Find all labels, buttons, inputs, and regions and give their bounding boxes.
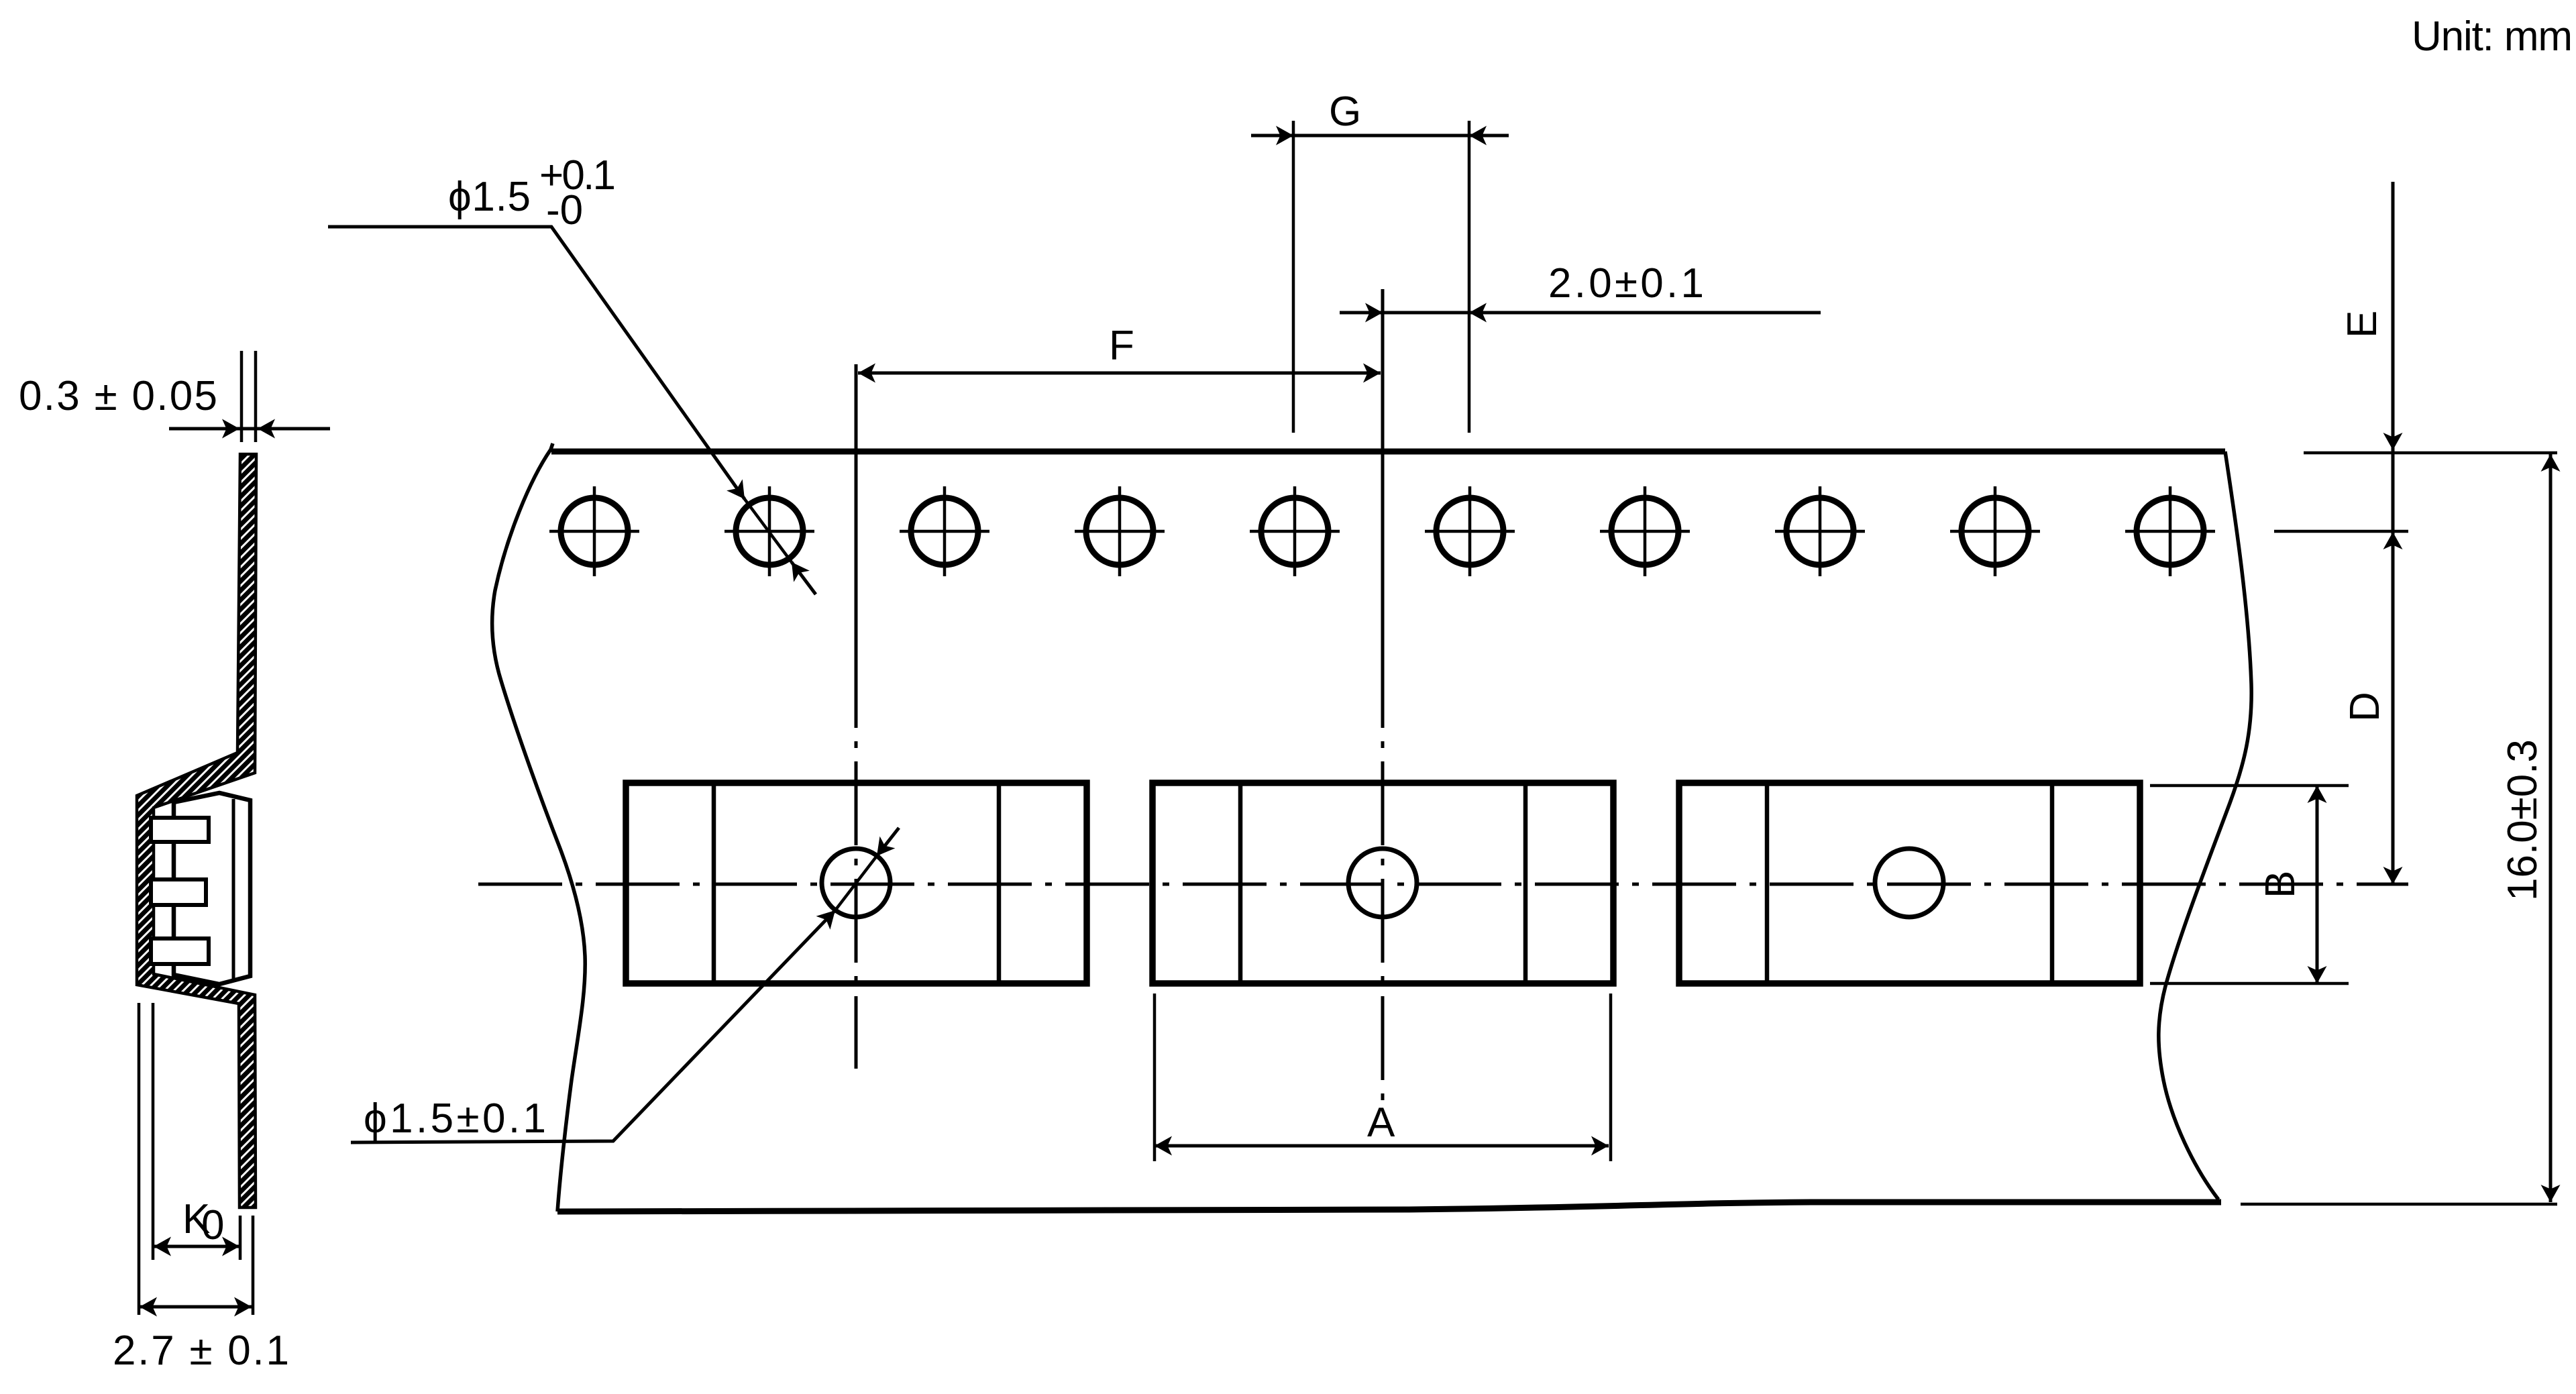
dimension A extension lines (1155, 994, 1611, 1161)
dimension A (1155, 1144, 1609, 1148)
sprocket hole 10 (2125, 486, 2215, 576)
sprocket hole 2 (724, 486, 814, 576)
dimension 0.3±0.05 extension lines (241, 351, 256, 442)
dimension E (leader line shared with D) (2392, 182, 2395, 884)
dimension G (1251, 134, 1509, 138)
sprocket hole 7 (1600, 486, 1690, 576)
dimension 2.7±0.1 (140, 1305, 252, 1309)
sprocket hole 1 (549, 486, 639, 576)
svg-text:E: E (2339, 311, 2385, 338)
svg-text:2.7 ± 0.1: 2.7 ± 0.1 (113, 1328, 289, 1374)
svg-text:A: A (1367, 1100, 1395, 1146)
svg-text:-0: -0 (546, 187, 583, 233)
dimension E extension line (tape top) (2304, 451, 2557, 455)
svg-text:0: 0 (201, 1202, 224, 1248)
dimension K0 extension lines (139, 1003, 253, 1315)
component lead 2 (section) (151, 879, 206, 905)
dimension B (2316, 786, 2319, 983)
tape horizontal center line (478, 883, 2408, 886)
callout phi1.5±0.1 (pocket hole dia) (351, 828, 899, 1142)
dimension K0 (154, 1245, 239, 1248)
tape right break line (2159, 451, 2251, 1199)
tape cross-section hatched band (137, 454, 256, 1208)
svg-text:16.0±0.3: 16.0±0.3 (2500, 739, 2546, 901)
component lead 1 (section) (151, 818, 209, 842)
tape top edge (551, 449, 2225, 455)
pocket 2 (1152, 783, 1613, 983)
sprocket hole 3 (900, 486, 989, 576)
dimension B extension lines (2150, 786, 2349, 983)
svg-text:0.3 ± 0.05: 0.3 ± 0.05 (19, 373, 217, 419)
svg-text:Unit: mm: Unit: mm (2412, 13, 2573, 60)
sprocket hole 8 (1775, 486, 1865, 576)
component inner line (section) (232, 799, 235, 979)
sprocket hole 4 (1075, 486, 1165, 576)
pocket 1 (626, 783, 1087, 983)
pocket 2 center line (vertical) (1381, 289, 1385, 644)
tape left break line (492, 443, 586, 1212)
dimension 2.0±0.1 (1340, 311, 1821, 315)
tape bottom edge (557, 1202, 2221, 1212)
pocket 3 (1679, 783, 2140, 983)
svg-text:G: G (1329, 89, 1361, 135)
sprocket hole 5 (1250, 486, 1340, 576)
dimension G extension lines (1293, 121, 1469, 433)
pocket 1 center line (vertical) (855, 364, 858, 644)
sprocket hole 9 (1950, 486, 2040, 576)
dimension 16.0±0.3 extension line (bottom) (2241, 1203, 2557, 1206)
svg-text:ϕ1.5: ϕ1.5 (448, 174, 531, 220)
dimension D (2383, 532, 2403, 549)
component lead 3 (section) (151, 939, 209, 964)
component body in pocket (section) (174, 793, 250, 984)
svg-text:F: F (1109, 323, 1134, 369)
callout phi1.5 +0.1/-0 (sprocket hole dia) (328, 227, 816, 594)
svg-text:B: B (2257, 871, 2304, 898)
svg-text:D: D (2342, 692, 2388, 722)
dimension 16.0±0.3 (2549, 454, 2553, 1202)
dimension F (858, 372, 1381, 375)
sprocket hole 6 (1425, 486, 1515, 576)
dimension 0.3±0.05 (169, 427, 330, 431)
sprocket center extension line (2274, 530, 2408, 533)
